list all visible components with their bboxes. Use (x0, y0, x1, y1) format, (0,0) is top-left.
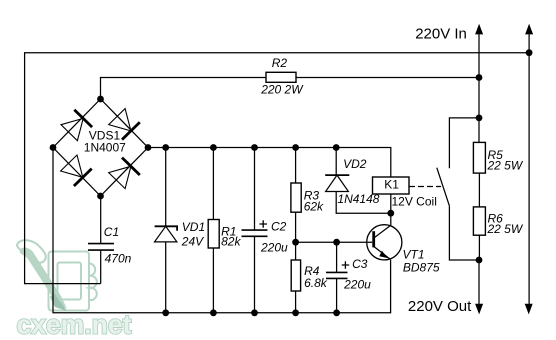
wire 220V input/output line right (528, 34, 530, 304)
svg-text:220 2W: 220 2W (260, 83, 304, 97)
wire base node (296, 241, 373, 243)
junction bridge AC bottom node (97, 193, 104, 200)
wire R6 bottom to output junction (478, 235, 480, 260)
wire R1 leads (212, 148, 214, 313)
junction R3-R4 base node (292, 239, 299, 246)
svg-text:220u: 220u (343, 278, 371, 292)
diode VD2 symbol (325, 175, 349, 191)
pad spiral scallops (89, 263, 97, 300)
svg-text:C1: C1 (104, 225, 119, 239)
wire between R5 and R6 (478, 173, 480, 207)
junction VD1 top rail (162, 144, 169, 151)
junction bridge minus node (50, 144, 57, 151)
capacitor C3 plus sign (342, 261, 350, 269)
pen loop (17, 240, 46, 262)
svg-text:R2: R2 (272, 56, 288, 70)
arrow 220V Out right (525, 304, 533, 315)
wire R4 leads (295, 242, 297, 313)
bridge diode D2 (top-right arm) (109, 109, 140, 140)
capacitor C2 plus sign (260, 220, 268, 228)
resistor R6 body (473, 207, 485, 235)
arrow 220V In right (525, 24, 533, 35)
resistor R3 body (291, 183, 301, 212)
junction R2 to input line (476, 74, 483, 81)
bridge diode D3 (bottom-left arm) (61, 155, 92, 186)
junction VD2 anode / K1 / collector (387, 210, 394, 217)
wire C1 bottom lead (100, 250, 102, 284)
svg-text:22 5W: 22 5W (487, 159, 524, 173)
junction VD2 top rail (333, 144, 340, 151)
wire VD1 leads (165, 148, 167, 313)
wire 220V input line left (478, 34, 480, 142)
svg-text:BD875: BD875 (403, 260, 440, 274)
svg-text:cxem.net: cxem.net (17, 310, 132, 340)
svg-text:1N4148: 1N4148 (337, 192, 379, 206)
wire switch branch top (449, 118, 479, 168)
resistor R2 body (266, 72, 296, 82)
wire VD2 leads (336, 148, 391, 214)
pad outer (49, 252, 90, 311)
svg-text:220V In: 220V In (415, 25, 467, 42)
junction R4 bottom rail (292, 309, 299, 316)
svg-text:22 5W: 22 5W (487, 222, 524, 236)
svg-text:VD2: VD2 (343, 157, 367, 171)
svg-text:K1: K1 (384, 177, 399, 191)
capacitor C2 plates (242, 230, 268, 236)
wire K1 bottom to collector (390, 194, 392, 225)
wire R3 leads (295, 148, 297, 243)
wire top DC rail to K1 (148, 148, 391, 178)
wire output junction to arrow (478, 260, 480, 304)
zener diode VD1 symbol (155, 226, 178, 242)
arrow 220V In left (475, 24, 483, 35)
capacitor C1 plates (88, 244, 114, 251)
transistor VT1 (367, 225, 402, 260)
wire bridge top node to R2 (101, 78, 267, 100)
junction top frame to right input line (526, 49, 533, 56)
relay actuation dashed link (409, 186, 441, 188)
resistor R5 body (473, 142, 485, 173)
svg-text:24V: 24V (181, 235, 204, 249)
watermark logo icon (17, 240, 97, 310)
junction C3 base node (333, 239, 340, 246)
junction bridge plus node (145, 144, 152, 151)
wire C1 top lead to bridge bottom node (100, 196, 102, 244)
capacitor C3 plates (326, 272, 348, 278)
wire emitter slant (374, 247, 390, 260)
pad inner (58, 263, 82, 300)
junction R1 bottom rail (210, 309, 217, 316)
wire AC frame (top edge, left edge, jog to C1 bottom) (25, 53, 529, 284)
svg-text:220u: 220u (260, 241, 288, 255)
relay K1 box (373, 177, 410, 194)
junction R1 top rail (210, 144, 217, 151)
junction switch branch bottom / output (476, 257, 483, 264)
bridge diode D4 (bottom-right arm) (109, 158, 140, 189)
resistor R4 body (291, 260, 300, 291)
arrow 220V Out left (475, 304, 483, 315)
svg-text:62k: 62k (304, 200, 324, 214)
svg-text:220V Out: 220V Out (408, 298, 472, 315)
junction C2 bottom rail (251, 309, 258, 316)
junction C3 bottom rail (333, 309, 340, 316)
junction bridge AC top node (97, 96, 104, 103)
svg-text:470n: 470n (105, 251, 132, 265)
pen nib (50, 293, 67, 311)
junction C2 top rail (251, 144, 258, 151)
wire bridge diamond arms (53, 99, 148, 196)
switch blade (437, 168, 450, 207)
junction switch branch top (476, 115, 483, 122)
junction VD1 bottom rail (162, 309, 169, 316)
wire C3 leads (336, 242, 338, 313)
svg-text:12V Coil: 12V Coil (392, 194, 437, 208)
svg-text:6.8k: 6.8k (304, 276, 328, 290)
svg-text:VD1: VD1 (182, 220, 205, 234)
wire bridge left node down and bottom rail and emitter riser (53, 148, 391, 313)
wire collector slant (374, 225, 391, 238)
bridge diode D1 (top-left arm) (61, 110, 92, 141)
resistor R1 body (208, 220, 219, 249)
wire C2 leads (254, 148, 256, 313)
wire switch branch bottom (449, 206, 479, 260)
svg-text:C3: C3 (352, 257, 368, 271)
pen shaft (20, 248, 67, 309)
svg-text:82k: 82k (221, 234, 241, 248)
junction R3 top rail (292, 144, 299, 151)
svg-text:C2: C2 (271, 220, 287, 234)
wire R2 right to input line (296, 77, 479, 79)
svg-text:1N4007: 1N4007 (84, 140, 126, 154)
